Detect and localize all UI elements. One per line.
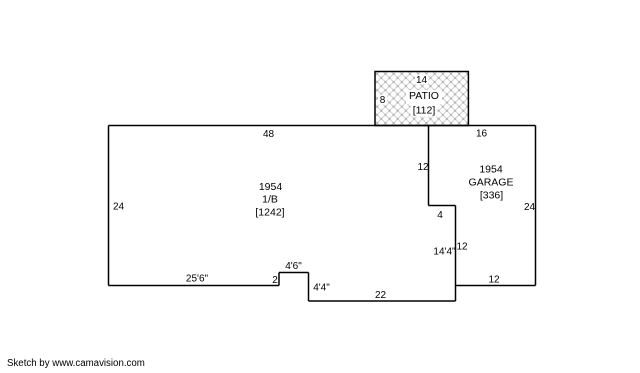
wire (109, 126, 536, 302)
svg-text:12: 12 (488, 275, 500, 286)
svg-text:1954: 1954 (479, 164, 503, 176)
patio hatched area (375, 72, 468, 126)
svg-text:16: 16 (476, 129, 488, 140)
svg-text:2: 2 (272, 275, 278, 286)
svg-text:12: 12 (417, 162, 429, 173)
wall: garage right edge (24) (535, 126, 537, 286)
svg-text:[1242]: [1242] (255, 207, 284, 219)
dimension 14 (patio top) (415, 75, 428, 87)
svg-text:48: 48 (263, 129, 275, 140)
svg-text:Sketch by www.camavision.com: Sketch by www.camavision.com (7, 358, 145, 369)
svg-text:4'4": 4'4" (313, 283, 330, 294)
svg-text:[112]: [112] (413, 105, 436, 117)
svg-text:[336]: [336] (480, 190, 503, 202)
wall: house left edge (24) (108, 126, 110, 286)
wall: 4'6" section (279, 272, 309, 274)
wall: garage inner edge 12 (428, 126, 430, 206)
svg-text:14'4": 14'4" (433, 247, 456, 258)
svg-text:1954: 1954 (259, 181, 283, 193)
label PATIO (406, 90, 442, 104)
svg-text:8: 8 (380, 95, 386, 106)
wall: garage bottom 12 section (456, 285, 536, 287)
svg-text:GARAGE: GARAGE (469, 177, 514, 189)
svg-text:4'6": 4'6" (285, 261, 302, 272)
wall: bottom 22 section (309, 300, 456, 302)
svg-text:12: 12 (456, 242, 468, 253)
wall: house right edge 14'4" (455, 206, 457, 302)
svg-text:1/B: 1/B (262, 194, 278, 206)
svg-text:PATIO: PATIO (409, 90, 439, 102)
dimension 8 (patio left) (378, 95, 387, 107)
svg-text:24: 24 (113, 202, 125, 213)
svg-text:25'6": 25'6" (186, 274, 209, 285)
wall: house bottom 25'6" section (109, 285, 280, 287)
svg-text:4: 4 (437, 210, 443, 221)
wall: garage step 4 (429, 205, 456, 207)
svg-text:14: 14 (416, 75, 428, 86)
svg-text:22: 22 (375, 290, 387, 301)
wall: step down 4'4" (308, 273, 310, 302)
wall: step up 2 (278, 273, 280, 286)
svg-text:24: 24 (524, 202, 536, 213)
wall: house+garage top edge (48 + 16) (109, 125, 536, 127)
label patio area [112] (411, 104, 438, 117)
